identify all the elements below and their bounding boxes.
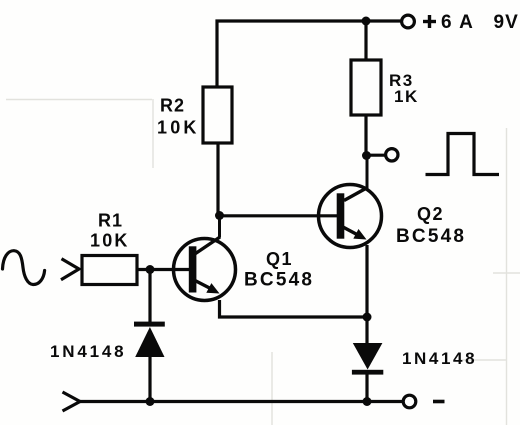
- node R3 / Q2 collector junction: [362, 151, 371, 160]
- node D1 / rail junction: [146, 397, 155, 406]
- wire D1 bottom: [148, 356, 151, 402]
- svg-text:6 A: 6 A: [441, 12, 474, 33]
- svg-text:BC548: BC548: [244, 270, 314, 291]
- svg-text:R2: R2: [160, 96, 185, 116]
- wire D2 top: [365, 317, 368, 345]
- square wave symbol: [426, 134, 500, 175]
- wire to output terminal: [367, 154, 386, 157]
- wire Q1 emitter to bottom node: [220, 300, 368, 317]
- sine wave symbol: [3, 251, 45, 285]
- bottom ground rail: [80, 400, 404, 403]
- svg-text:1N4148: 1N4148: [402, 349, 477, 368]
- ground rail arrow chevron: [63, 392, 81, 411]
- diode D2 1N4148: [352, 343, 383, 375]
- svg-text:R1: R1: [98, 211, 123, 231]
- resistor R2: [203, 87, 232, 143]
- wire Q2 base: [220, 214, 339, 217]
- node Q1 emitter / Q2 emitter junction: [363, 313, 372, 322]
- wire top rail and drop to R2: [217, 21, 401, 87]
- input arrow chevron: [61, 259, 79, 280]
- svg-text:BC548: BC548: [396, 226, 466, 247]
- terminal +V open circle: [402, 15, 415, 28]
- svg-text:Q2: Q2: [417, 204, 444, 224]
- node D2 / rail junction: [363, 397, 372, 406]
- svg-text:10K: 10K: [157, 118, 200, 138]
- node Q1 collector / Q2 base junction: [215, 211, 224, 220]
- terminal minus open circle: [403, 395, 416, 408]
- wire R3 top: [364, 21, 367, 60]
- resistor R3: [351, 60, 381, 115]
- wire D1 top: [148, 270, 151, 323]
- terminal output open circle: [386, 149, 398, 161]
- resistor R1: [82, 256, 137, 285]
- wire D2 bottom: [365, 372, 368, 402]
- node top rail / R3 junction: [362, 17, 371, 26]
- plus sign of +6A9V: [423, 20, 436, 23]
- transistor Q2: [319, 156, 382, 248]
- svg-text:1K: 1K: [394, 87, 419, 106]
- svg-text:9V: 9V: [494, 12, 519, 33]
- node R1 / D1 junction: [146, 265, 155, 274]
- minus sign: [433, 400, 445, 404]
- wire R1 output to Q1 base: [137, 268, 190, 271]
- svg-text:1N4148: 1N4148: [50, 342, 126, 361]
- diode D1 1N4148: [134, 322, 165, 357]
- wire R3 bottom: [364, 115, 367, 156]
- wire Q2 emitter: [365, 245, 368, 317]
- wire R2 bottom: [216, 143, 219, 216]
- svg-text:10K: 10K: [90, 231, 130, 251]
- transistor Q1: [174, 216, 236, 301]
- svg-text:Q1: Q1: [266, 249, 293, 269]
